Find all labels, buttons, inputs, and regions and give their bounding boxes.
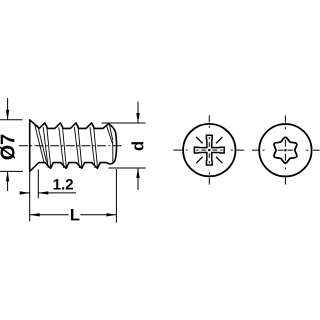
label L — [71, 209, 79, 220]
pozidriv cross — [194, 135, 224, 165]
torx star — [274, 137, 297, 163]
arrowhead 1.2 right — [38, 191, 48, 194]
torx center dot — [284, 149, 286, 151]
torx horizontal centerline — [252, 149, 320, 151]
screw outline — [30, 120, 117, 172]
d bottom extension — [109, 167, 147, 169]
arrowhead L right — [106, 213, 116, 216]
arrowhead O7 top — [6, 110, 9, 120]
label d (rotated) — [131, 142, 143, 150]
d dim line top — [137, 102, 139, 124]
1.2 extension line — [37, 170, 39, 199]
L dim line — [30, 214, 69, 216]
O7 dim line top — [7, 98, 9, 120]
label 1.2 — [54, 179, 73, 189]
O7 bottom extension — [0, 170, 23, 172]
torx vertical centerline — [284, 116, 286, 185]
pozidriv diagonal ticks — [196, 137, 222, 163]
d top extension — [102, 122, 146, 124]
arrowhead O7 bottom — [6, 171, 9, 181]
dimension extension lines — [0, 98, 146, 223]
1.2 dim lines — [21, 192, 30, 194]
pozidriv head view circle — [183, 124, 235, 176]
d dim line bottom — [137, 168, 139, 190]
arrowhead d top — [136, 113, 139, 123]
thread helix lines — [35, 124, 113, 168]
torx head view circle — [259, 124, 311, 176]
screw side view centerline — [19, 145, 124, 147]
O7 top extension — [0, 119, 23, 121]
O7 dim line bottom — [7, 171, 9, 191]
head face extension down — [29, 171, 31, 221]
PZ horizontal centerline — [173, 149, 244, 151]
PZ center dot — [208, 149, 210, 151]
tip extension down — [115, 169, 117, 223]
label O7 (rotated) — [0, 135, 15, 160]
arrowhead d bottom — [136, 168, 139, 178]
PZ vertical centerline — [208, 115, 210, 184]
arrowhead 1.2 left — [20, 191, 30, 194]
arrowhead L left — [30, 213, 40, 216]
